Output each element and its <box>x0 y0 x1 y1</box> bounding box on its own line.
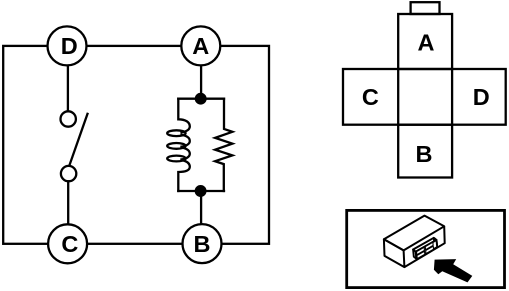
wire outer loop of left circuit <box>3 46 269 244</box>
relay connector front face <box>416 240 438 259</box>
switch S1 top contact <box>60 111 75 126</box>
relay photo frame <box>347 210 505 287</box>
wire from node 2 down to B <box>200 191 202 224</box>
relay connector left face <box>413 250 416 259</box>
relay body top face <box>384 216 444 251</box>
wire from switch to C <box>67 181 69 224</box>
relay connector top face <box>413 238 436 252</box>
relay body left face <box>384 239 405 267</box>
switch S1 blade <box>70 114 88 164</box>
svg-text:C: C <box>362 84 379 110</box>
relay connector slot 2 <box>425 242 433 249</box>
inductor L1 (left branch coil) <box>178 99 190 133</box>
wire top of parallel branch <box>178 98 224 100</box>
svg-text:D: D <box>61 33 78 59</box>
relay pinout cell A <box>398 14 452 69</box>
resistor R1 (right branch zigzag) <box>215 99 232 191</box>
relay pinout middle row <box>343 69 506 125</box>
terminal A circle <box>181 26 220 65</box>
node 1 junction dot <box>196 94 206 104</box>
svg-text:B: B <box>416 141 433 167</box>
relay connector slot 1 <box>417 247 425 254</box>
arrow pointing at relay connector <box>434 259 472 282</box>
svg-text:B: B <box>194 231 211 257</box>
relay connector slot 3 <box>417 251 425 258</box>
wire bottom of parallel branch <box>178 190 224 192</box>
relay pinout center cell right edge <box>451 69 453 125</box>
relay body right face <box>404 226 444 267</box>
svg-text:C: C <box>61 231 78 257</box>
terminal B circle <box>183 224 222 263</box>
svg-text:D: D <box>473 84 490 110</box>
relay pinout tab <box>411 2 440 14</box>
svg-text:A: A <box>418 29 435 55</box>
wire from D down to switch <box>67 65 69 111</box>
svg-text:A: A <box>192 33 209 59</box>
relay connector slot 4 <box>426 246 434 253</box>
relay connector right face <box>434 238 437 247</box>
switch S1 bottom contact <box>61 166 76 181</box>
terminal D circle <box>48 26 87 65</box>
wire from A down to node 1 <box>200 65 202 98</box>
relay pinout cell B <box>398 125 452 178</box>
relay pinout center cell left edge <box>397 69 399 125</box>
terminal C circle <box>48 224 87 263</box>
node 2 junction dot <box>196 186 206 196</box>
